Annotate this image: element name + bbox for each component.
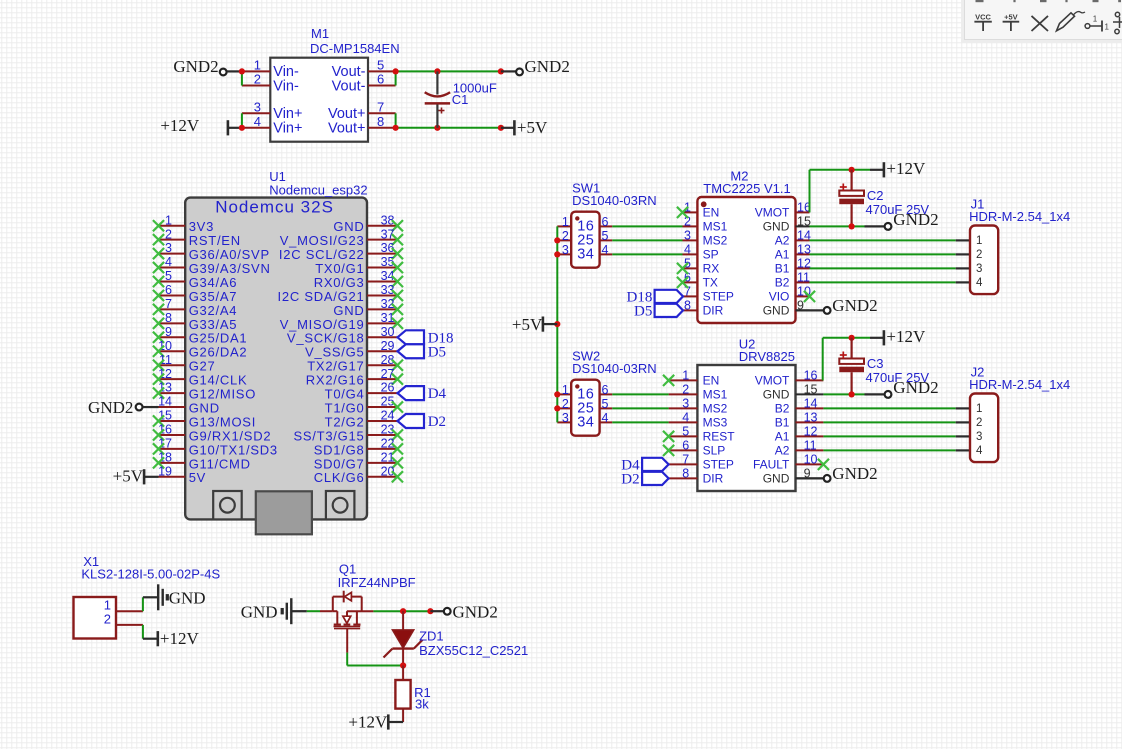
svg-text:+12V: +12V bbox=[160, 629, 200, 648]
svg-text:GND2: GND2 bbox=[453, 603, 498, 622]
svg-text:1: 1 bbox=[165, 213, 172, 227]
svg-text:G13/MOSI: G13/MOSI bbox=[189, 414, 256, 429]
svg-text:TX: TX bbox=[703, 275, 718, 289]
svg-text:RST/EN: RST/EN bbox=[189, 233, 241, 248]
svg-text:15: 15 bbox=[797, 214, 811, 228]
svg-text:REST: REST bbox=[703, 429, 736, 443]
svg-text:GND2: GND2 bbox=[893, 210, 938, 229]
svg-text:1: 1 bbox=[976, 235, 982, 247]
svg-text:D5: D5 bbox=[428, 344, 446, 360]
svg-text:5: 5 bbox=[165, 269, 172, 283]
svg-text:9: 9 bbox=[165, 325, 172, 339]
svg-text:DIR: DIR bbox=[703, 471, 724, 485]
svg-text:Vout-: Vout- bbox=[332, 78, 366, 94]
svg-text:+12V: +12V bbox=[348, 712, 388, 731]
svg-text:KLS2-128I-5.00-02P-4S: KLS2-128I-5.00-02P-4S bbox=[81, 567, 220, 582]
svg-text:26: 26 bbox=[381, 381, 395, 395]
svg-text:G36/A0/SVP: G36/A0/SVP bbox=[189, 247, 270, 262]
svg-text:Vout+: Vout+ bbox=[328, 121, 366, 137]
svg-text:+5V: +5V bbox=[1004, 12, 1018, 21]
svg-text:G39/A3/SVN: G39/A3/SVN bbox=[189, 261, 271, 276]
svg-text:3: 3 bbox=[684, 228, 691, 242]
svg-text:Vin-: Vin- bbox=[273, 78, 299, 94]
svg-text:RX0/G3: RX0/G3 bbox=[314, 275, 365, 290]
svg-text:MS1: MS1 bbox=[703, 219, 728, 233]
svg-text:B2: B2 bbox=[775, 275, 790, 289]
svg-text:I2C SCL/G22: I2C SCL/G22 bbox=[279, 247, 365, 262]
svg-text:DRV8825: DRV8825 bbox=[739, 349, 795, 364]
svg-text:2: 2 bbox=[254, 72, 261, 87]
svg-text:14: 14 bbox=[158, 395, 172, 409]
svg-text:EN: EN bbox=[703, 373, 720, 387]
svg-text:4: 4 bbox=[602, 411, 609, 425]
svg-text:FAULT: FAULT bbox=[753, 457, 790, 471]
svg-text:8: 8 bbox=[165, 311, 172, 325]
svg-text:5: 5 bbox=[602, 397, 609, 411]
svg-text:5: 5 bbox=[602, 229, 609, 243]
svg-text:12: 12 bbox=[804, 424, 818, 438]
svg-text:2: 2 bbox=[976, 249, 982, 261]
svg-text:DIR: DIR bbox=[703, 303, 724, 317]
svg-text:G34/A6: G34/A6 bbox=[189, 275, 238, 290]
svg-text:CLK/G6: CLK/G6 bbox=[314, 470, 365, 485]
svg-text:VMOT: VMOT bbox=[755, 205, 790, 219]
svg-text:2: 2 bbox=[562, 229, 569, 243]
svg-text:GND2: GND2 bbox=[893, 378, 938, 397]
svg-text:EN: EN bbox=[703, 205, 720, 219]
svg-text:+5V: +5V bbox=[113, 467, 144, 486]
svg-text:G25/DA1: G25/DA1 bbox=[189, 331, 248, 346]
svg-text:3: 3 bbox=[562, 411, 569, 425]
svg-text:D4: D4 bbox=[428, 386, 447, 402]
svg-text:7: 7 bbox=[377, 99, 384, 114]
svg-text:GND2: GND2 bbox=[173, 57, 218, 76]
svg-text:8: 8 bbox=[377, 114, 384, 129]
svg-text:VIO: VIO bbox=[769, 289, 790, 303]
svg-text:D2: D2 bbox=[621, 471, 639, 487]
svg-text:DS1040-03RN: DS1040-03RN bbox=[572, 361, 657, 376]
svg-text:GND: GND bbox=[333, 303, 364, 318]
svg-text:1: 1 bbox=[1093, 15, 1098, 24]
svg-text:6: 6 bbox=[682, 438, 689, 452]
svg-text:G11/CMD: G11/CMD bbox=[189, 456, 251, 471]
svg-text:24: 24 bbox=[381, 409, 395, 423]
svg-text:RX2/G16: RX2/G16 bbox=[306, 373, 365, 388]
svg-text:GND2: GND2 bbox=[832, 464, 877, 483]
svg-text:4: 4 bbox=[976, 277, 983, 289]
svg-text:34: 34 bbox=[577, 414, 594, 430]
svg-text:+5V: +5V bbox=[517, 118, 548, 137]
svg-text:MS2: MS2 bbox=[703, 233, 728, 247]
svg-text:2: 2 bbox=[976, 417, 982, 429]
svg-text:34: 34 bbox=[577, 246, 594, 262]
svg-text:7: 7 bbox=[165, 297, 172, 311]
svg-text:A1: A1 bbox=[775, 429, 790, 443]
svg-text:TX2/G17: TX2/G17 bbox=[307, 359, 364, 374]
svg-text:TX0/G1: TX0/G1 bbox=[315, 261, 364, 276]
svg-text:G26/DA2: G26/DA2 bbox=[189, 345, 248, 360]
svg-text:C1: C1 bbox=[452, 92, 469, 107]
svg-text:TMC2225 V1.1: TMC2225 V1.1 bbox=[703, 181, 790, 196]
svg-text:3: 3 bbox=[562, 243, 569, 257]
svg-text:GND2: GND2 bbox=[88, 398, 133, 417]
svg-text:4: 4 bbox=[976, 445, 983, 457]
svg-text:GND: GND bbox=[241, 603, 278, 622]
svg-text:4: 4 bbox=[602, 243, 609, 257]
svg-text:13: 13 bbox=[797, 242, 811, 256]
svg-text:B1: B1 bbox=[775, 415, 790, 429]
svg-text:BZX55C12_C2521: BZX55C12_C2521 bbox=[419, 643, 528, 658]
svg-text:3: 3 bbox=[976, 263, 982, 275]
svg-text:MS2: MS2 bbox=[703, 401, 728, 415]
svg-text:GND: GND bbox=[189, 400, 220, 415]
svg-text:4: 4 bbox=[684, 242, 691, 256]
svg-text:V_MOSI/G23: V_MOSI/G23 bbox=[280, 233, 365, 248]
svg-text:4: 4 bbox=[254, 114, 261, 129]
svg-text:3V3: 3V3 bbox=[189, 219, 214, 234]
svg-text:G33/A5: G33/A5 bbox=[189, 317, 238, 332]
svg-text:MS1: MS1 bbox=[703, 387, 728, 401]
svg-text:19: 19 bbox=[158, 464, 172, 478]
svg-text:6: 6 bbox=[165, 283, 172, 297]
svg-text:VMOT: VMOT bbox=[755, 373, 790, 387]
svg-text:5: 5 bbox=[682, 424, 689, 438]
svg-text:D2: D2 bbox=[428, 414, 446, 430]
svg-text:SD0/G7: SD0/G7 bbox=[314, 456, 365, 471]
svg-text:GND: GND bbox=[333, 219, 364, 234]
svg-text:GND: GND bbox=[169, 588, 206, 607]
svg-text:4: 4 bbox=[165, 255, 172, 269]
svg-text:7: 7 bbox=[682, 452, 689, 466]
svg-text:1: 1 bbox=[976, 403, 982, 415]
svg-text:GND2: GND2 bbox=[525, 57, 570, 76]
svg-text:2: 2 bbox=[562, 397, 569, 411]
svg-text:G32/A4: G32/A4 bbox=[189, 303, 238, 318]
svg-text:14: 14 bbox=[804, 396, 818, 410]
svg-text:T2/G2: T2/G2 bbox=[325, 414, 365, 429]
svg-text:3k: 3k bbox=[415, 697, 429, 712]
svg-text:GND: GND bbox=[763, 303, 790, 317]
svg-text:M1: M1 bbox=[311, 26, 329, 41]
svg-text:A2: A2 bbox=[775, 233, 790, 247]
svg-text:6: 6 bbox=[377, 72, 384, 87]
svg-text:1: 1 bbox=[254, 57, 261, 72]
svg-text:Vin+: Vin+ bbox=[273, 121, 302, 137]
svg-text:12: 12 bbox=[797, 256, 811, 270]
svg-text:2: 2 bbox=[104, 611, 111, 626]
svg-text:Nodemcu 32S: Nodemcu 32S bbox=[215, 197, 334, 216]
svg-text:DC-MP1584EN: DC-MP1584EN bbox=[310, 41, 400, 56]
svg-text:2: 2 bbox=[682, 382, 689, 396]
svg-text:5: 5 bbox=[377, 57, 384, 72]
svg-text:B1: B1 bbox=[775, 261, 790, 275]
svg-text:GND: GND bbox=[763, 219, 790, 233]
svg-text:11: 11 bbox=[804, 438, 817, 452]
svg-text:G35/A7: G35/A7 bbox=[189, 289, 238, 304]
svg-text:8: 8 bbox=[684, 298, 691, 312]
svg-text:+12V: +12V bbox=[886, 327, 926, 346]
svg-text:1: 1 bbox=[562, 215, 569, 229]
svg-text:T1/G0: T1/G0 bbox=[325, 400, 365, 415]
svg-text:SLP: SLP bbox=[703, 443, 726, 457]
svg-text:I2C SDA/G21: I2C SDA/G21 bbox=[277, 289, 364, 304]
svg-text:IRFZ44NPBF: IRFZ44NPBF bbox=[338, 575, 416, 590]
svg-text:3: 3 bbox=[682, 396, 689, 410]
svg-text:+5V: +5V bbox=[512, 315, 543, 334]
svg-text:3: 3 bbox=[976, 431, 982, 443]
svg-text:V_MISO/G19: V_MISO/G19 bbox=[280, 317, 365, 332]
svg-text:1: 1 bbox=[1105, 23, 1110, 32]
svg-text:MS3: MS3 bbox=[703, 415, 728, 429]
svg-text:11: 11 bbox=[159, 353, 172, 367]
svg-text:30: 30 bbox=[381, 325, 395, 339]
svg-text:VCC: VCC bbox=[975, 12, 991, 21]
svg-text:3: 3 bbox=[165, 241, 172, 255]
svg-text:V_SCK/G18: V_SCK/G18 bbox=[287, 331, 365, 346]
svg-text:6: 6 bbox=[602, 383, 609, 397]
svg-text:STEP: STEP bbox=[703, 457, 734, 471]
svg-text:STEP: STEP bbox=[703, 289, 734, 303]
svg-text:GND: GND bbox=[763, 471, 790, 485]
svg-text:A2: A2 bbox=[775, 443, 790, 457]
svg-text:6: 6 bbox=[602, 215, 609, 229]
svg-text:ZD1: ZD1 bbox=[419, 629, 444, 644]
svg-text:2: 2 bbox=[165, 227, 172, 241]
svg-text:G9/RX1/SD2: G9/RX1/SD2 bbox=[189, 428, 272, 443]
svg-text:RX: RX bbox=[703, 261, 720, 275]
svg-text:15: 15 bbox=[804, 382, 818, 396]
svg-text:+12V: +12V bbox=[160, 116, 200, 135]
svg-text:V_SS/G5: V_SS/G5 bbox=[305, 345, 364, 360]
svg-text:SP: SP bbox=[703, 247, 719, 261]
svg-text:HDR-M-2.54_1x4: HDR-M-2.54_1x4 bbox=[969, 377, 1070, 392]
svg-text:+12V: +12V bbox=[886, 159, 926, 178]
svg-text:GND2: GND2 bbox=[832, 296, 877, 315]
svg-text:8: 8 bbox=[682, 466, 689, 480]
svg-text:14: 14 bbox=[797, 228, 811, 242]
svg-text:4: 4 bbox=[682, 410, 689, 424]
svg-text:1: 1 bbox=[682, 368, 689, 382]
svg-text:G27: G27 bbox=[189, 359, 216, 374]
svg-text:D5: D5 bbox=[634, 303, 652, 319]
svg-text:SD1/G8: SD1/G8 bbox=[314, 442, 365, 457]
svg-text:B2: B2 bbox=[775, 401, 790, 415]
svg-text:16: 16 bbox=[804, 368, 818, 382]
svg-text:Nodemcu_esp32: Nodemcu_esp32 bbox=[269, 183, 367, 198]
svg-text:10: 10 bbox=[804, 452, 818, 466]
svg-text:A1: A1 bbox=[775, 247, 790, 261]
svg-text:11: 11 bbox=[797, 270, 810, 284]
svg-text:G12/MISO: G12/MISO bbox=[189, 387, 256, 402]
svg-text:G14/CLK: G14/CLK bbox=[189, 373, 248, 388]
svg-text:G10/TX1/SD3: G10/TX1/SD3 bbox=[189, 442, 278, 457]
svg-text:3: 3 bbox=[254, 99, 261, 114]
svg-text:1: 1 bbox=[562, 383, 569, 397]
svg-text:T0/G4: T0/G4 bbox=[325, 387, 365, 402]
svg-text:SS/T3/G15: SS/T3/G15 bbox=[293, 428, 364, 443]
svg-text:GND: GND bbox=[763, 387, 790, 401]
svg-text:29: 29 bbox=[381, 339, 395, 353]
svg-text:DS1040-03RN: DS1040-03RN bbox=[572, 193, 657, 208]
svg-text:13: 13 bbox=[804, 410, 818, 424]
svg-text:5V: 5V bbox=[189, 470, 206, 485]
svg-text:HDR-M-2.54_1x4: HDR-M-2.54_1x4 bbox=[969, 209, 1070, 224]
